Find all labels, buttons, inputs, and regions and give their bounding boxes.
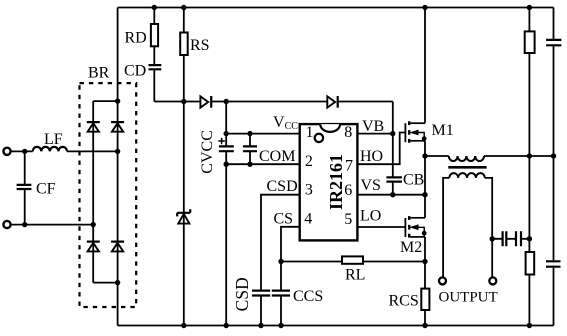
- resistor RD: [151, 24, 158, 46]
- node top rail right: [527, 5, 532, 10]
- node rail RCS: [422, 323, 427, 328]
- capacitor top-right: [546, 40, 561, 45]
- diode bridge top-left: [87, 122, 100, 132]
- transistor M2: [405, 216, 425, 238]
- capacitor C2: [243, 146, 257, 151]
- svg-text:CSD: CSD: [267, 178, 298, 195]
- node VB: [390, 131, 395, 136]
- wire CVCC branch: [225, 102, 227, 326]
- svg-text:CVCC: CVCC: [199, 130, 216, 174]
- svg-text:OUTPUT: OUTPUT: [439, 290, 498, 306]
- node COM cap2: [247, 162, 252, 167]
- svg-text:CB: CB: [403, 172, 424, 189]
- wire AC input lower: [10, 224, 93, 226]
- node series caps right: [527, 236, 532, 241]
- node charge RS: [181, 99, 186, 104]
- svg-text:M2: M2: [400, 239, 422, 256]
- node AC2 bridge: [91, 222, 96, 227]
- svg-text:VS: VS: [361, 177, 381, 194]
- zener diode DZ: [177, 209, 190, 223]
- wire C2 branch: [249, 134, 251, 165]
- node RL right: [422, 259, 427, 264]
- node rail CCS: [278, 323, 283, 328]
- wire bridge left branch vertical: [92, 101, 94, 283]
- node M1 source body: [422, 136, 427, 141]
- wire Vcc pin1: [226, 133, 300, 135]
- node VS CB: [390, 192, 395, 197]
- node COM cap1: [224, 162, 229, 167]
- node VS halfbridge: [422, 192, 427, 197]
- diode bridge bottom-right: [111, 242, 124, 252]
- wire RL row: [281, 261, 425, 263]
- resistor R top-right: [525, 31, 535, 53]
- svg-text:HO: HO: [360, 148, 383, 165]
- node RL left: [278, 259, 283, 264]
- wire HO pin7 to M1 gate: [357, 133, 404, 165]
- wire RD-CD branch: [153, 8, 155, 102]
- node top rail RD: [152, 5, 157, 10]
- capacitor CSD: [252, 291, 270, 296]
- svg-text:IR2161: IR2161: [326, 154, 346, 210]
- capacitor CB: [386, 177, 402, 181]
- wire half-bridge vertical: [424, 8, 426, 326]
- wire resonant row: [425, 155, 554, 157]
- node charge CVCC: [224, 99, 229, 104]
- op-amp U1 IC IR2161 body: [300, 124, 358, 240]
- wire bridge right branch vertical: [117, 8, 119, 326]
- plus sign CVCC: [218, 138, 225, 145]
- svg-text:LF: LF: [44, 131, 63, 148]
- wire top rail: [118, 7, 554, 9]
- svg-text:M1: M1: [432, 122, 454, 139]
- capacitor CF: [17, 185, 32, 189]
- capacitor series CB2: [516, 231, 521, 246]
- transistor M1: [405, 121, 425, 143]
- svg-text:CS: CS: [274, 211, 294, 228]
- node AC1 upper: [22, 149, 27, 154]
- svg-text:CSD: CSD: [232, 277, 252, 311]
- transformer core: [448, 166, 486, 169]
- svg-text:1: 1: [306, 124, 314, 141]
- pin 1 dot circle: [315, 134, 323, 142]
- node rail CVCC: [224, 323, 229, 328]
- wire RS-DZ branch: [183, 8, 185, 326]
- svg-text:RS: RS: [190, 37, 210, 54]
- wire LO pin5 to M2 gate: [357, 226, 404, 228]
- wire COM pin2: [226, 163, 300, 165]
- node top rail RS: [181, 5, 186, 10]
- node resonant left: [422, 153, 427, 158]
- wire CF branch: [24, 151, 26, 224]
- capacitor series CA: [503, 231, 507, 246]
- svg-text:COM: COM: [259, 148, 295, 165]
- svg-text:5: 5: [344, 211, 352, 228]
- node resonant mid: [527, 153, 532, 158]
- wire Vcc charge rail: [154, 101, 392, 103]
- capacitor CVCC electrolytic: [219, 146, 234, 151]
- resistor RCS: [421, 289, 429, 310]
- node resonant right: [551, 153, 556, 158]
- svg-text:CD: CD: [124, 63, 146, 80]
- bridge rectifier dashed box BR: [80, 83, 137, 307]
- wire secondary left lead: [443, 178, 449, 277]
- svg-text:CCS: CCS: [293, 288, 323, 305]
- svg-text:LO: LO: [360, 208, 381, 225]
- inductor secondary: [449, 173, 485, 178]
- wire secondary right lead: [485, 178, 492, 277]
- svg-text:VB: VB: [362, 118, 384, 135]
- wire CSD pin3: [261, 195, 300, 326]
- node rail DZ: [181, 323, 186, 328]
- IC notch: [320, 124, 340, 132]
- svg-text:BR: BR: [88, 65, 110, 82]
- node Vcc cap2: [247, 131, 252, 136]
- diode D1 supply: [200, 96, 211, 108]
- node Vcc cap1: [224, 131, 229, 136]
- terminal output right: [489, 277, 496, 284]
- node series caps left: [490, 236, 495, 241]
- wire VS pin6: [357, 194, 425, 196]
- svg-text:RCS: RCS: [389, 293, 419, 310]
- svg-text:CF: CF: [36, 181, 56, 198]
- resistor RS: [180, 33, 188, 56]
- svg-text:3: 3: [305, 182, 313, 199]
- diode D2 bootstrap: [327, 96, 337, 108]
- wire CS pin4: [281, 227, 300, 326]
- diode bridge top-right: [111, 122, 124, 132]
- wire right branch A: [528, 8, 530, 326]
- diode bridge bottom-left: [87, 242, 100, 252]
- wire AC input upper: [10, 150, 117, 152]
- wire right branch B: [553, 8, 555, 326]
- svg-text:8: 8: [344, 124, 352, 141]
- resistor RL: [342, 256, 363, 263]
- node top rail M1: [422, 5, 427, 10]
- node rail CSD: [258, 323, 263, 328]
- wire bottom rail: [118, 325, 554, 327]
- terminal output left: [439, 277, 446, 284]
- node AC1 bridge: [115, 149, 120, 154]
- node AC2 lower: [22, 222, 27, 227]
- svg-text:7: 7: [345, 158, 353, 175]
- capacitor bottom-right: [546, 261, 561, 266]
- wire bridge top connector: [93, 100, 117, 102]
- svg-text:2: 2: [305, 153, 313, 170]
- svg-text:4: 4: [304, 211, 312, 228]
- node rail right: [527, 323, 532, 328]
- wire VB pin8: [357, 133, 392, 135]
- inductor LF: [33, 147, 67, 152]
- capacitor CCS: [272, 291, 290, 296]
- svg-text:RL: RL: [345, 267, 365, 284]
- node bridge minus: [115, 280, 120, 285]
- wire bootstrap CB branch: [392, 102, 394, 195]
- wire bridge bottom connector: [93, 282, 117, 284]
- wire series caps row: [492, 238, 529, 240]
- capacitor CD: [149, 65, 162, 69]
- svg-text:RD: RD: [125, 30, 147, 47]
- terminal input lower: [3, 221, 10, 228]
- node bridge plus: [115, 98, 120, 103]
- inductor resonant primary: [449, 156, 484, 161]
- node M2 source body: [422, 231, 427, 236]
- terminal input upper: [3, 148, 10, 155]
- resistor R bottom-right: [526, 252, 535, 275]
